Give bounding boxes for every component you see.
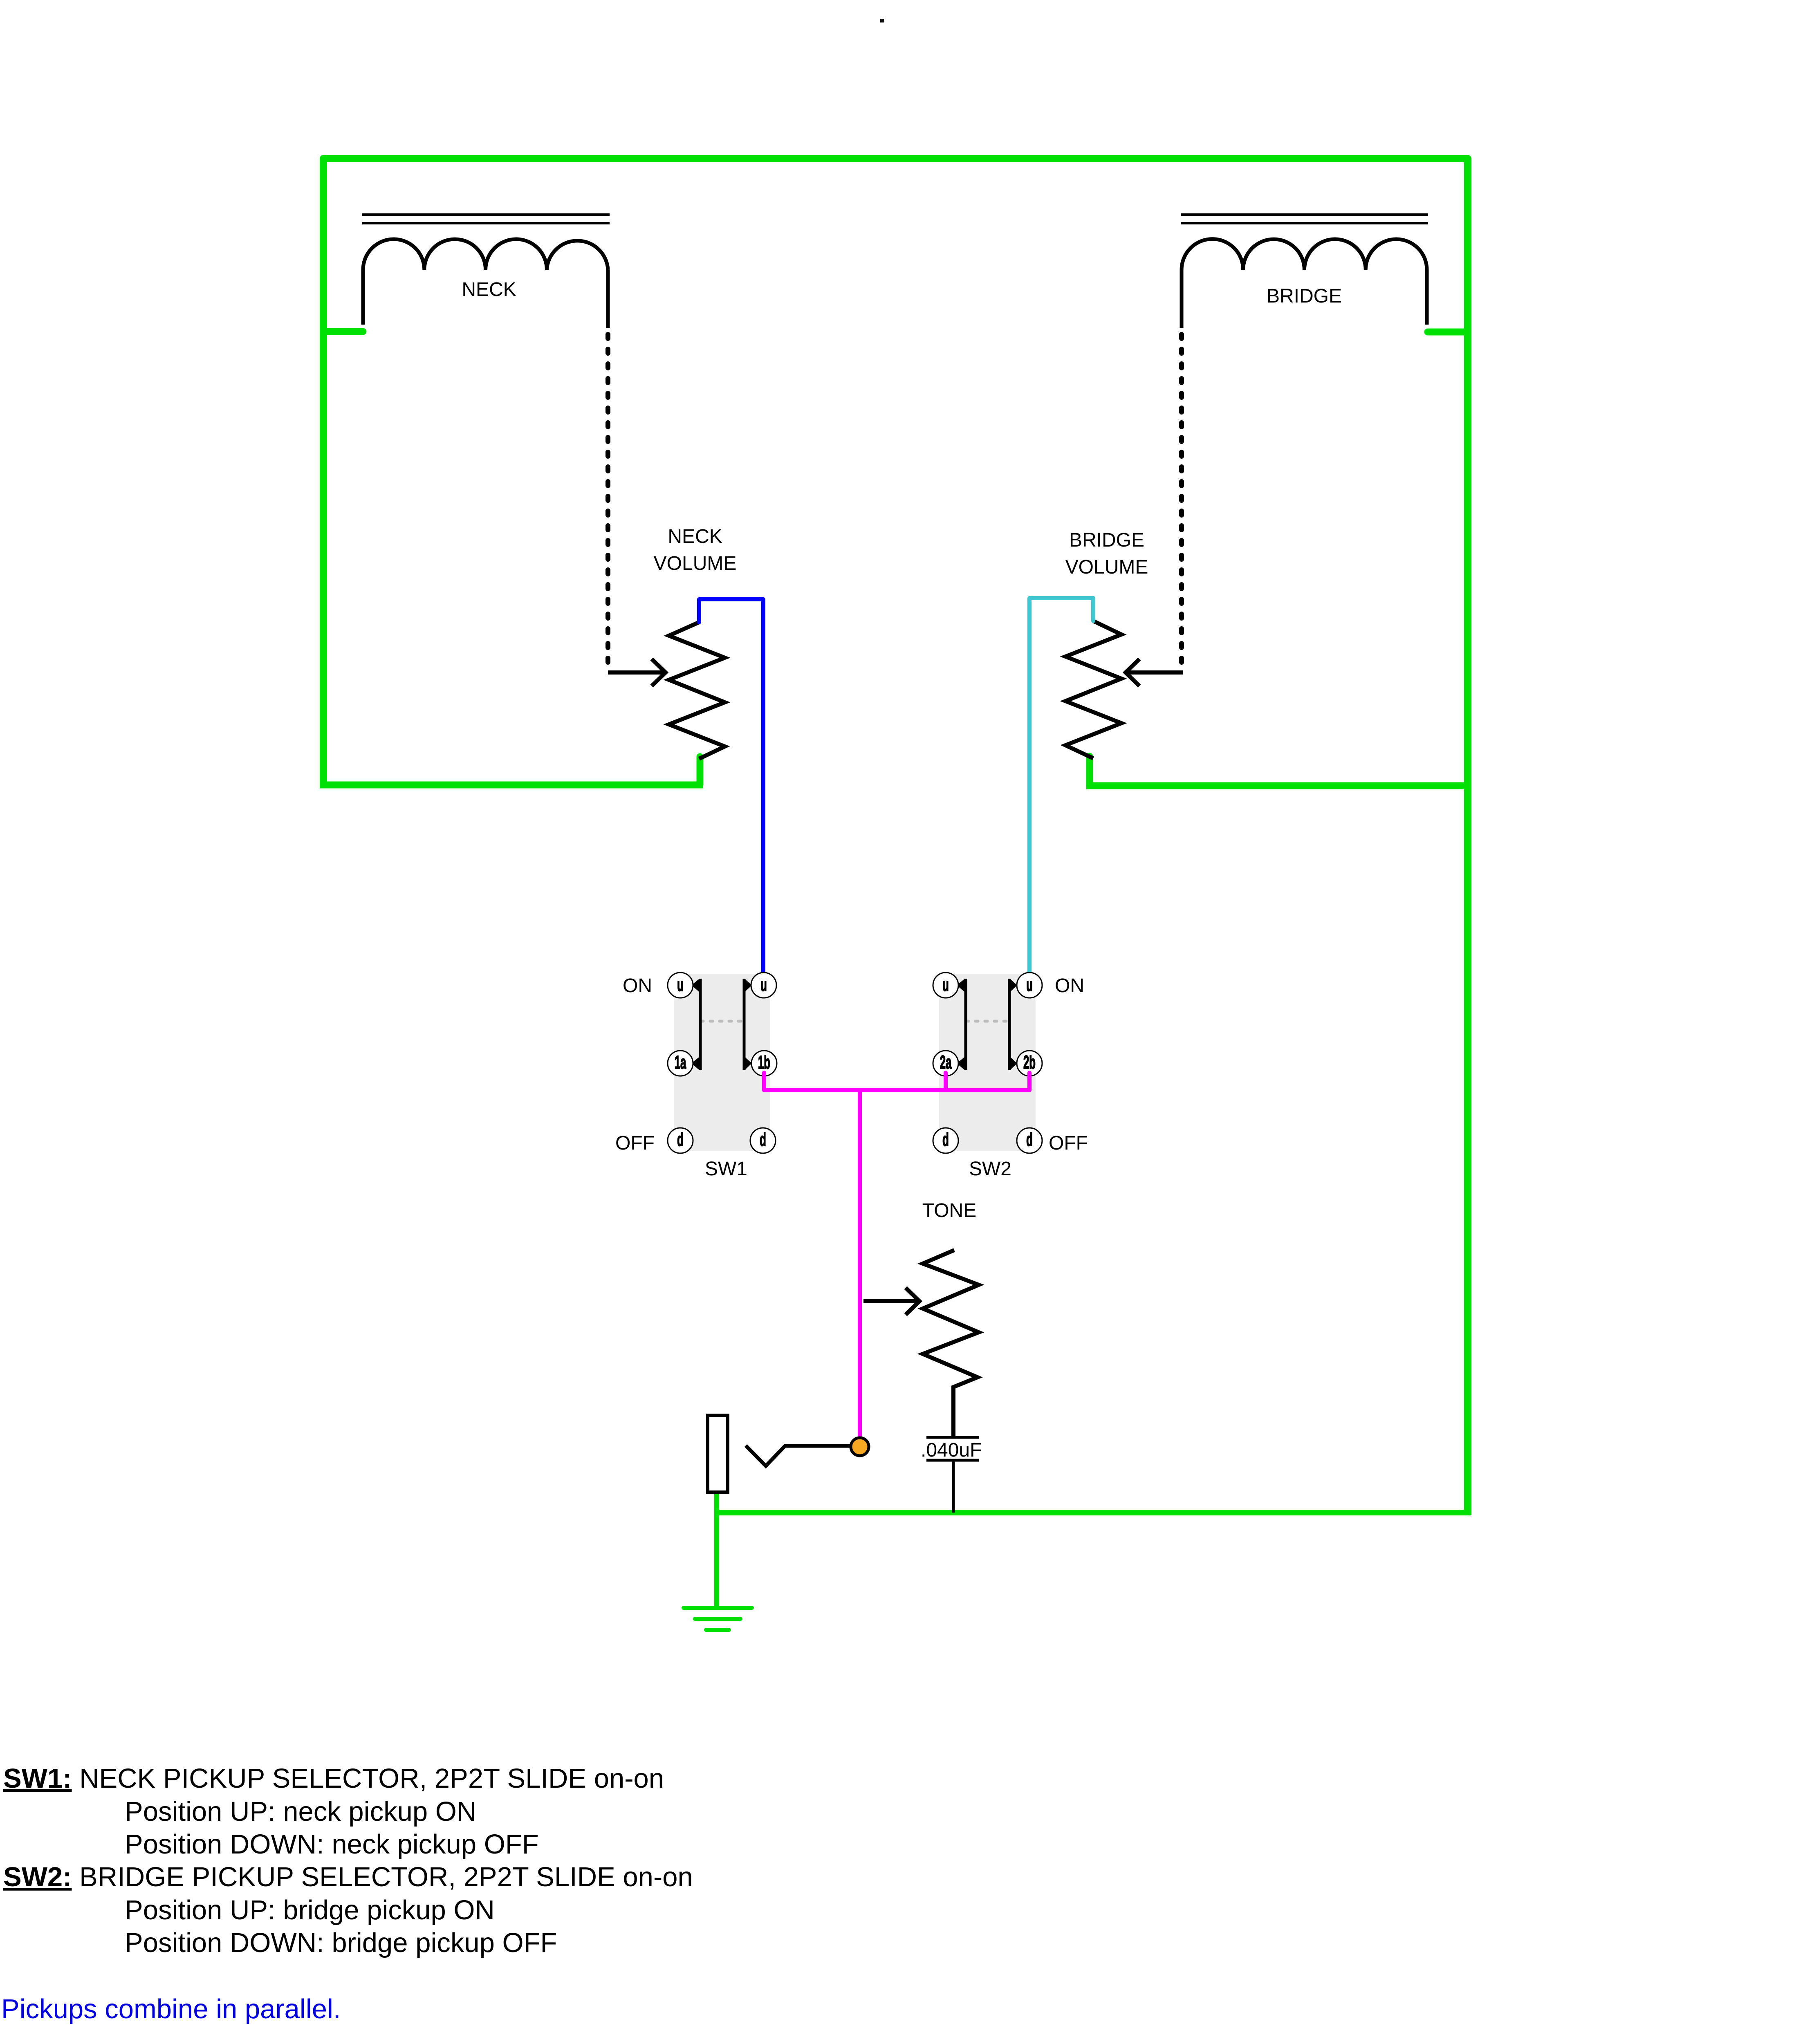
svg-text:SW1: SW1 — [705, 1158, 747, 1180]
capacitor .040uF — [926, 1437, 979, 1513]
svg-text:Position UP: bridge pickup ON: Position UP: bridge pickup ON — [125, 1895, 495, 1925]
svg-text:SW2: SW2 — [969, 1158, 1011, 1180]
wire ground bus bottom — [717, 1510, 1471, 1515]
svg-text:Position UP: neck pickup ON: Position UP: neck pickup ON — [125, 1796, 476, 1827]
switch SW1 body — [674, 974, 770, 1151]
svg-text:1b: 1b — [758, 1052, 770, 1072]
wire magenta to jack — [858, 1090, 862, 1443]
svg-text:NECK: NECK — [668, 526, 722, 547]
svg-text:u: u — [942, 974, 949, 995]
potentiometer TONE — [863, 1250, 979, 1437]
svg-text:OFF: OFF — [615, 1132, 655, 1154]
jack tip arm — [746, 1446, 850, 1466]
svg-text:u: u — [677, 974, 684, 995]
wire green neck volume bottom — [697, 757, 704, 785]
svg-text:u: u — [1026, 974, 1033, 995]
switch SW2 poles — [957, 979, 1017, 1070]
svg-text:ON: ON — [1055, 975, 1084, 997]
wire green neck coil stub — [323, 328, 363, 335]
pickup NECK coil — [362, 215, 610, 666]
pin labels u/1a/1b/d (SW1) and u/2a/2b/d (SW2) — [675, 974, 1036, 1150]
svg-text:Position DOWN: neck pickup OFF: Position DOWN: neck pickup OFF — [125, 1829, 539, 1860]
switch SW1 contacts — [668, 973, 777, 1153]
svg-text:SW2: BRIDGE PICKUP SELECTOR, 2: SW2: BRIDGE PICKUP SELECTOR, 2P2T SLIDE … — [3, 1862, 693, 1892]
potentiometer NECK VOLUME — [608, 622, 725, 759]
svg-text:VOLUME: VOLUME — [654, 553, 737, 574]
output jack — [708, 1415, 728, 1492]
svg-text:d: d — [942, 1129, 949, 1150]
svg-text:d: d — [677, 1129, 684, 1150]
svg-text:SW1: NECK PICKUP SELECTOR, 2P2: SW1: NECK PICKUP SELECTOR, 2P2T SLIDE on… — [3, 1763, 664, 1794]
switch SW2 contacts — [933, 973, 1042, 1153]
ground symbol — [684, 1608, 752, 1630]
svg-text:2a: 2a — [940, 1052, 952, 1072]
svg-text:VOLUME: VOLUME — [1065, 556, 1148, 578]
potentiometer BRIDGE VOLUME — [1065, 621, 1183, 758]
stray dot — [880, 19, 884, 22]
switch SW2 body — [939, 974, 1036, 1151]
jack tip terminal — [851, 1438, 869, 1456]
svg-text:BRIDGE: BRIDGE — [1267, 285, 1342, 307]
wire magenta output bus — [764, 1073, 1029, 1090]
wire blue neck hot — [699, 599, 763, 980]
svg-text:d: d — [1026, 1129, 1033, 1150]
switch SW1 poles — [691, 979, 752, 1070]
wire green jack ground — [714, 1492, 719, 1607]
svg-text:Pickups combine in parallel.: Pickups combine in parallel. — [1, 1994, 341, 2024]
wire ground bus main loop — [323, 159, 1468, 1515]
svg-text:NECK: NECK — [462, 279, 516, 300]
wire green bridge coil stub — [1428, 329, 1468, 336]
svg-text:.040uF: .040uF — [921, 1439, 982, 1461]
svg-text:OFF: OFF — [1049, 1132, 1088, 1154]
svg-text:BRIDGE: BRIDGE — [1069, 529, 1144, 551]
svg-text:u: u — [760, 974, 767, 995]
svg-text:TONE: TONE — [922, 1200, 976, 1221]
wire cyan bridge hot — [1029, 598, 1093, 980]
svg-text:2b: 2b — [1023, 1052, 1036, 1072]
wire green bridge volume bottom — [1086, 756, 1093, 786]
pickup BRIDGE coil — [1181, 215, 1428, 666]
svg-text:1a: 1a — [675, 1052, 686, 1072]
svg-text:ON: ON — [623, 975, 652, 997]
wire magenta 2a stub — [944, 1073, 948, 1090]
svg-text:Position DOWN: bridge pickup O: Position DOWN: bridge pickup OFF — [125, 1927, 557, 1958]
svg-text:d: d — [760, 1129, 766, 1150]
